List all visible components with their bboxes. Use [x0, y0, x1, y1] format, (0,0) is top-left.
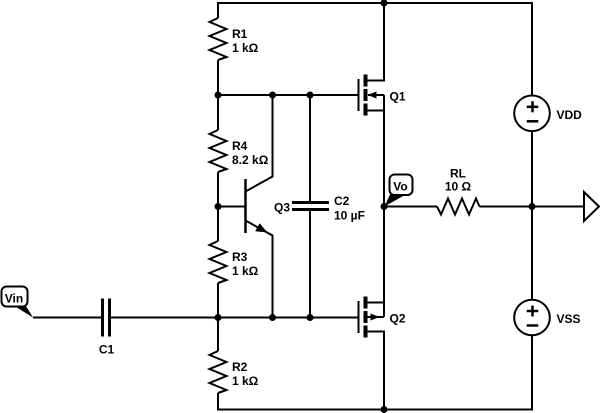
resistor R1 [210, 18, 227, 60]
capacitor C2 [292, 203, 329, 210]
resistor R2 [210, 351, 227, 393]
svg-text:10 Ω: 10 Ω [445, 180, 472, 194]
svg-text:1 kΩ: 1 kΩ [232, 264, 259, 278]
svg-text:C1: C1 [99, 343, 115, 357]
svg-text:10 µF: 10 µF [334, 209, 365, 223]
node Vin flag [2, 287, 34, 318]
wire VDD to VSS [531, 131, 533, 300]
svg-text:R2: R2 [232, 360, 248, 374]
svg-text:R3: R3 [232, 250, 248, 264]
wire R4 to R3 [217, 172, 219, 241]
transistor Q2 [359, 207, 385, 410]
label C2 value [334, 194, 365, 223]
wire bottom rail [218, 335, 532, 409]
svg-text:Vo: Vo [393, 180, 407, 194]
svg-text:C2: C2 [334, 194, 350, 208]
output port triangle [584, 192, 599, 221]
node junction dots [215, 0, 536, 413]
wire RL to output [480, 206, 585, 208]
svg-text:R1: R1 [232, 27, 248, 41]
svg-text:Q1: Q1 [390, 90, 406, 104]
svg-text:Vin: Vin [5, 292, 23, 306]
capacitor C1 [103, 299, 110, 337]
label R2 value [232, 360, 259, 388]
svg-text:1 kΩ: 1 kΩ [232, 41, 259, 55]
wire Vin lead [33, 317, 102, 319]
wire node C horizontal [110, 317, 358, 319]
svg-text:Q2: Q2 [390, 312, 406, 326]
source VSS [514, 300, 550, 336]
label R4 value [232, 139, 269, 167]
wire C2 bottom vertical [309, 210, 311, 317]
resistor RL [437, 199, 480, 215]
label R1 value [232, 27, 259, 55]
transistor Q3 [246, 95, 273, 318]
resistor R3 [210, 241, 227, 283]
svg-text:Q3: Q3 [274, 201, 290, 215]
label RL value [445, 167, 472, 194]
svg-text:RL: RL [450, 167, 466, 181]
wire top rail [218, 3, 532, 96]
transistor Q1 [359, 3, 385, 207]
svg-text:8.2 kΩ: 8.2 kΩ [232, 153, 269, 167]
wire R1 to R4 [217, 60, 219, 130]
svg-text:VSS: VSS [557, 312, 581, 326]
wire Vo to RL [384, 206, 437, 208]
wire Q3 base [218, 206, 245, 208]
node Vo flag [385, 175, 413, 207]
svg-text:VDD: VDD [557, 108, 583, 122]
source VDD [514, 96, 550, 132]
wire C2 top vertical [309, 95, 311, 202]
wire node A horizontal [218, 94, 358, 96]
wire R3 to R2 [217, 283, 219, 351]
label R3 value [232, 250, 259, 278]
svg-text:R4: R4 [232, 139, 248, 153]
svg-text:1 kΩ: 1 kΩ [232, 374, 259, 388]
resistor R4 [210, 130, 227, 172]
